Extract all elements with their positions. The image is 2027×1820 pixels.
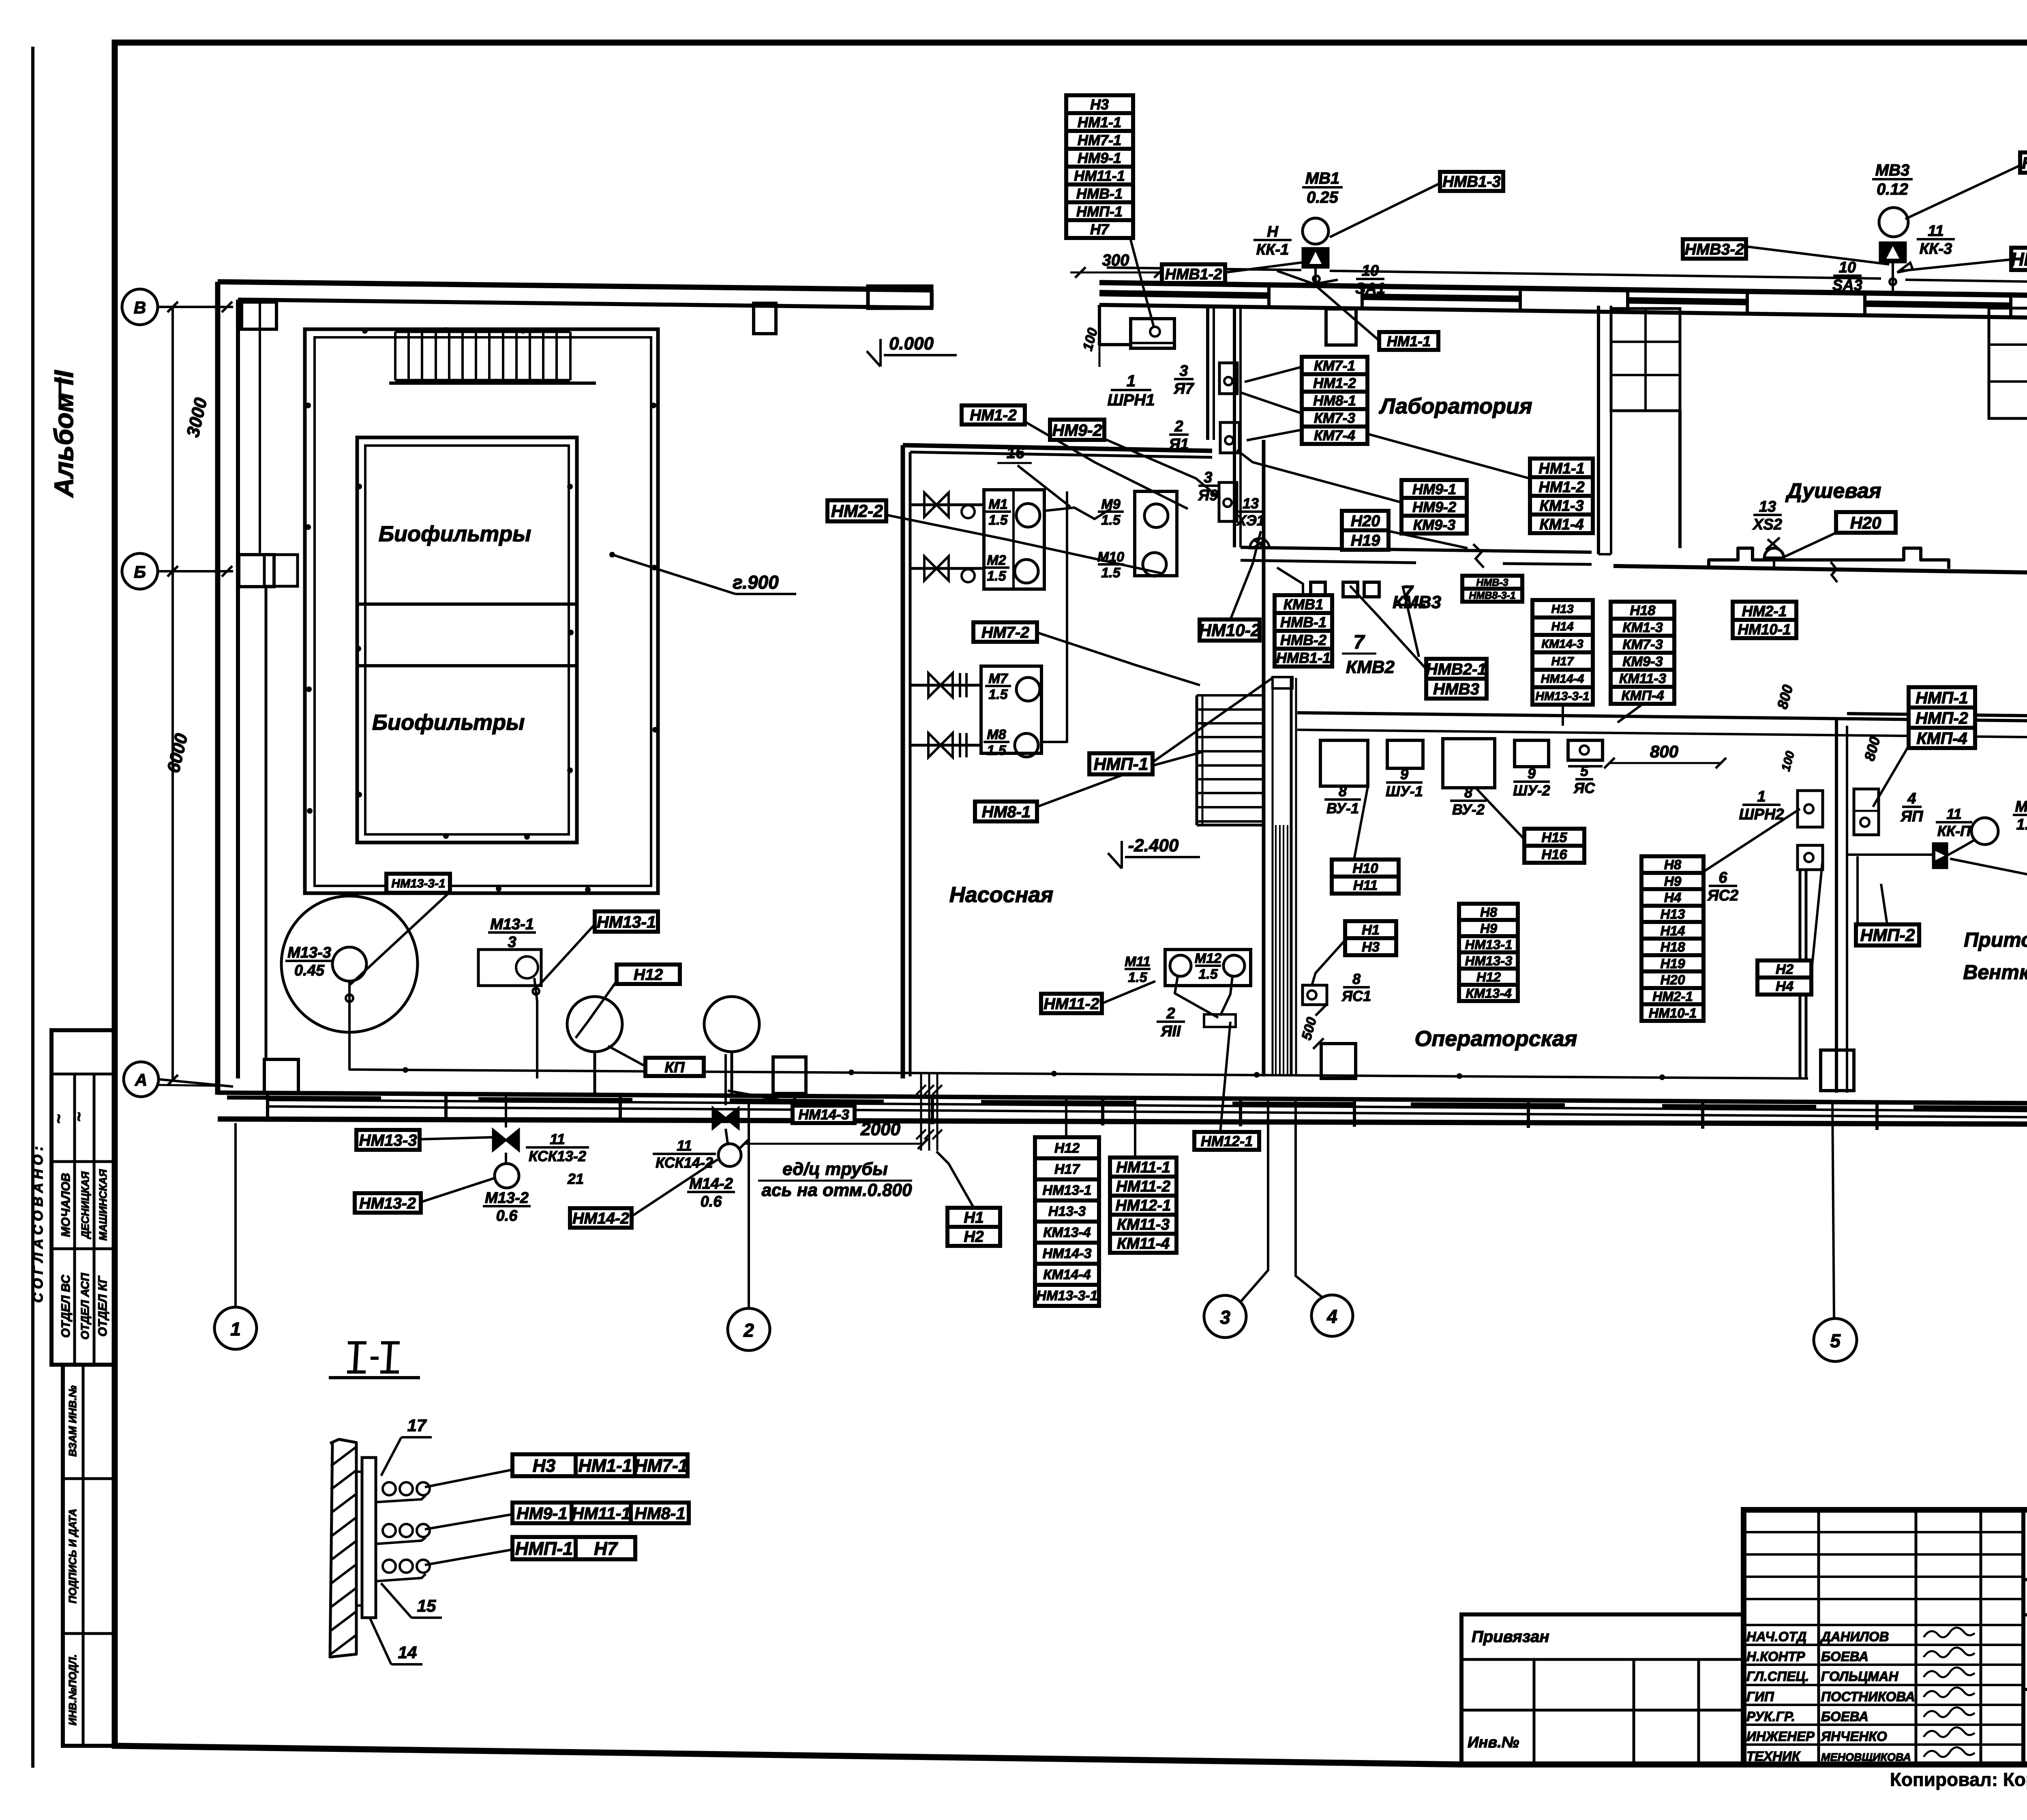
svg-text:ГИП: ГИП: [1746, 1689, 1774, 1704]
svg-text:6: 6: [1718, 869, 1727, 886]
svg-text:НМ9-2: НМ9-2: [1052, 421, 1102, 439]
svg-text:НМ9-1: НМ9-1: [1412, 481, 1456, 497]
svg-text:2000: 2000: [860, 1119, 900, 1139]
svg-text:ШРН2: ШРН2: [1739, 806, 1784, 823]
wire МВ3 down: [1892, 262, 1894, 293]
stack НМ2-1 НМ10-1: [1733, 602, 1796, 620]
device Я7: [1219, 363, 1237, 394]
stack КМ7-1 (5 rows): [1302, 357, 1367, 374]
svg-text:КМ9-3: КМ9-3: [1413, 517, 1455, 533]
left wall pilaster: [239, 555, 274, 587]
biofilter pool outer: [357, 437, 577, 842]
section row1 boxes: [512, 1454, 576, 1476]
column line 2: [748, 1100, 750, 1308]
nasosnaya top wall: [903, 445, 1212, 451]
bottom wall outer: [218, 1119, 2027, 1125]
box НМВ3-1: [2011, 248, 2027, 270]
stack НМП-1 vent (3 rows): [1909, 687, 1975, 707]
stack НМ11 bottom (5 rows): [1110, 1158, 1176, 1177]
box НМВ3-3: [2020, 152, 2027, 173]
svg-text:Н17: Н17: [1551, 655, 1574, 668]
biofilter tank inner wall line: [315, 337, 651, 886]
svg-text:ШУ-2: ШУ-2: [1513, 782, 1550, 799]
svg-text:3: 3: [1179, 362, 1188, 379]
pipe valves M2: [910, 567, 984, 570]
hall top wall outer: [218, 282, 932, 290]
pump block M11 M12: [1165, 950, 1251, 986]
pipe valves M8: [910, 744, 981, 747]
stack Н15 Н16: [1524, 829, 1584, 846]
svg-text:Копировал: Коршунова: Копировал: Коршунова: [1890, 1769, 2027, 1790]
bottom cable dots: [403, 1067, 408, 1073]
svg-text:МВ1: МВ1: [1305, 169, 1339, 187]
wire 16 leader: [1018, 465, 1070, 507]
svg-text:1.5: 1.5: [1101, 512, 1121, 528]
svg-text:Н12: Н12: [634, 966, 663, 984]
sheet edge line: [31, 47, 34, 1768]
svg-text:21: 21: [567, 1170, 584, 1187]
svg-text:ОТДЕЛ ВС: ОТДЕЛ ВС: [59, 1274, 73, 1338]
svg-text:НМ1-1: НМ1-1: [1078, 114, 1121, 131]
stack Н3 main (8 rows): [1066, 95, 1133, 113]
svg-text:НАЧ.ОТД: НАЧ.ОТД: [1746, 1629, 1806, 1644]
motor М13-3 big circle: [281, 896, 418, 1032]
leader Н2/Н4: [1811, 860, 1823, 973]
box НМ8-1: [975, 802, 1037, 821]
svg-text:16: 16: [1007, 444, 1025, 462]
svg-text:НМ13-3-1: НМ13-3-1: [1535, 690, 1589, 703]
svg-text:ГЛ.СПЕЦ.: ГЛ.СПЕЦ.: [1746, 1669, 1809, 1684]
svg-text:9: 9: [1528, 765, 1536, 782]
svg-text:НМВ2-1: НМВ2-1: [1426, 660, 1487, 678]
svg-text:0.000: 0.000: [889, 334, 934, 354]
wire stack НМ11 up: [1134, 1100, 1136, 1158]
svg-text:ИНВ.№ПОДЛ.: ИНВ.№ПОДЛ.: [66, 1654, 79, 1726]
svg-text:Н13: Н13: [1660, 907, 1685, 922]
svg-text:НМ13-3: НМ13-3: [1465, 953, 1513, 968]
stack Н10 Н11: [1332, 860, 1399, 877]
svg-text:НМ7-1: НМ7-1: [634, 1456, 688, 1476]
svg-text:0.6: 0.6: [701, 1193, 722, 1210]
leader НМ1-2 wire: [1025, 422, 1188, 509]
hall wall end pier: [868, 286, 932, 308]
section wire row2: [425, 1514, 512, 1529]
leader НМП-2 box: [1881, 884, 1887, 924]
svg-text:Н3: Н3: [1090, 96, 1109, 113]
svg-text:ед/ц трубы: ед/ц трубы: [782, 1159, 888, 1179]
box НМ10-2: [1200, 620, 1260, 641]
leader НМВ3-3 to МВ3: [1905, 165, 2020, 219]
leader Н13 stack down: [1562, 705, 1564, 726]
svg-text:М13-3: М13-3: [287, 944, 331, 961]
main top wall outer: [1099, 283, 2027, 300]
svg-text:НМ10-1: НМ10-1: [1649, 1006, 1697, 1021]
svg-text:Я7: Я7: [1174, 380, 1195, 397]
wire КК-П to МП: [1947, 840, 1974, 855]
leader НМ13-2 to motor: [421, 1178, 495, 1202]
leader НМП stack to ЯП: [1873, 746, 1909, 807]
svg-text:ВУ-1: ВУ-1: [1326, 800, 1359, 817]
tank Н12 circle 2: [704, 997, 759, 1052]
contactor КК-П: [1933, 843, 1947, 868]
svg-text:Привязан: Привязан: [1472, 1628, 1549, 1646]
svg-text:Н20: Н20: [1351, 512, 1380, 530]
stack Н12 bottom (8 rows): [1035, 1137, 1099, 1158]
leader Н15/Н16: [1476, 788, 1524, 839]
svg-text:НМП-1: НМП-1: [1916, 688, 1968, 707]
stack КМВ1 (4 rows): [1275, 595, 1332, 613]
svg-text:НМ12-1: НМ12-1: [1115, 1197, 1171, 1214]
svg-text:Н12: Н12: [1054, 1140, 1080, 1156]
box НМ1-1 lab: [1379, 332, 1438, 350]
device ЯС1: [1303, 985, 1327, 1005]
svg-text:НМ1-1: НМ1-1: [1538, 460, 1584, 477]
sidebar lower table (inventory): [63, 1365, 115, 1746]
svg-text:ЯП: ЯП: [1900, 808, 1923, 825]
motor М14-2: [718, 1144, 741, 1166]
left wall inner: [236, 300, 240, 1078]
devices ШРН2 risers: [1798, 791, 1823, 827]
svg-text:КК-3: КК-3: [1920, 240, 1952, 257]
wire Н1Н2 up: [936, 1151, 974, 1208]
operator room top wall: [1297, 713, 2027, 722]
svg-text:НМ13-3: НМ13-3: [359, 1131, 417, 1149]
svg-text:1.5: 1.5: [1101, 565, 1121, 581]
svg-text:Н18: Н18: [1660, 940, 1685, 955]
svg-text:НМ13-1: НМ13-1: [1043, 1183, 1092, 1198]
svg-text:ЯНЧЕНКО: ЯНЧЕНКО: [1821, 1729, 1887, 1744]
svg-text:НМВ-1: НМВ-1: [1076, 185, 1123, 202]
svg-text:2: 2: [1166, 1005, 1175, 1022]
left wall cable box: [264, 555, 298, 586]
left wall cable: [259, 302, 261, 555]
svg-text:НМ7-2: НМ7-2: [981, 624, 1029, 641]
svg-text:НМ11-2: НМ11-2: [1116, 1178, 1171, 1195]
svg-text:ДАНИЛОВ: ДАНИЛОВ: [1820, 1629, 1889, 1644]
svg-text:Н8: Н8: [1664, 857, 1682, 872]
risers symbol bottom: [920, 1074, 922, 1151]
column line 3: [1241, 1100, 1268, 1302]
bottom wall inner lines: [268, 1100, 2027, 1113]
svg-text:SA3: SA3: [1832, 277, 1862, 294]
svg-text:КМ1-4: КМ1-4: [1539, 516, 1583, 533]
leader НМВ3-2: [1746, 247, 1889, 264]
pipe valves M1: [910, 504, 984, 506]
svg-text:Н14: Н14: [1660, 924, 1685, 939]
leader НМ7-2 wire: [1037, 632, 1200, 685]
stack Н2 Н4: [1757, 960, 1811, 978]
svg-text:8: 8: [1339, 783, 1347, 800]
svg-text:ЯII: ЯII: [1161, 1023, 1181, 1040]
svg-text:НМП-2: НМП-2: [1860, 926, 1915, 945]
svg-text:Н19: Н19: [1351, 532, 1380, 549]
box ШУ-1: [1387, 740, 1423, 768]
svg-text:3: 3: [508, 934, 516, 951]
section cable group 3: [383, 1560, 396, 1573]
svg-text:НМВ-2: НМВ-2: [1280, 632, 1326, 648]
svg-text:НМП-1: НМП-1: [1094, 755, 1148, 774]
svg-text:1.5: 1.5: [987, 568, 1006, 584]
svg-text:КМП-4: КМП-4: [1916, 729, 1967, 748]
biofilter grate comb: [395, 330, 570, 333]
box НМ7-2: [973, 622, 1037, 642]
sidebar upper table (approvals): [51, 1030, 115, 1365]
wire М13-1 down: [534, 978, 537, 1078]
wire M1 to riser: [1044, 508, 1111, 519]
svg-text:1.5: 1.5: [988, 687, 1008, 702]
svg-text:КМ14-3: КМ14-3: [1541, 637, 1583, 651]
svg-text:Н4: Н4: [1664, 890, 1682, 905]
svg-text:11: 11: [1946, 806, 1961, 822]
leader Н1/Н3 to ЯС1: [1312, 941, 1345, 985]
stair treads: [1196, 695, 1198, 825]
wires M11 M12: [1175, 976, 1218, 1018]
svg-text:НМ14-4: НМ14-4: [1541, 672, 1584, 686]
svg-text:НМВ1-2: НМВ1-2: [1165, 266, 1222, 283]
svg-text:НМВ8-3-1: НМВ8-3-1: [1469, 590, 1515, 601]
svg-text:БОЕВА: БОЕВА: [1821, 1709, 1868, 1724]
svg-text:5: 5: [1580, 763, 1589, 779]
svg-text:НМВ3-3: НМВ3-3: [2022, 154, 2027, 172]
svg-text:КМ7-3: КМ7-3: [1622, 637, 1663, 652]
axis circle В: [122, 289, 158, 325]
title block main outline: [1744, 1510, 2027, 1764]
svg-text:1.5: 1.5: [988, 512, 1008, 528]
svg-text:1.5: 1.5: [1128, 970, 1147, 985]
svg-text:КМ13-4: КМ13-4: [1466, 986, 1511, 1001]
title left box Привязан: [1461, 1614, 1744, 1764]
axis line А: [159, 1079, 233, 1087]
svg-text:Душевая: Душевая: [1785, 479, 1881, 503]
bottom-left wall pier: [264, 1059, 298, 1093]
svg-text:ВУ-2: ВУ-2: [1452, 801, 1485, 818]
leader Н8 stack to riser: [1703, 809, 1800, 872]
wire top cable main: [1107, 268, 1301, 270]
leader НМ14-2 to motor: [632, 1160, 718, 1216]
svg-text:НМВ-3: НМВ-3: [1476, 577, 1508, 588]
contactor КК-1: [1303, 248, 1328, 268]
svg-text:МЕНОВЩИКОВА: МЕНОВЩИКОВА: [1821, 1751, 1911, 1763]
box НМ1-2: [962, 405, 1025, 424]
stack НМ9-1 (3 rows): [1401, 480, 1467, 498]
svg-text:НМ9-2: НМ9-2: [1412, 499, 1456, 515]
svg-text:НМ11-1: НМ11-1: [1074, 167, 1125, 184]
svg-text:ШРН1: ШРН1: [1108, 391, 1155, 409]
nasosnaya left wall: [901, 445, 905, 1078]
svg-text:НМ10-1: НМ10-1: [1738, 621, 1791, 638]
svg-text:1: 1: [1127, 372, 1136, 390]
box ШУ-2: [1515, 740, 1549, 767]
svg-text:КК-П: КК-П: [1937, 823, 1971, 839]
svg-text:НМ2-1: НМ2-1: [1652, 989, 1693, 1004]
svg-text:Н3: Н3: [1362, 939, 1380, 955]
leader Н20/Н19 wire: [1389, 531, 1468, 548]
leader НМВ2-1/НМВ3 box: [1350, 586, 1426, 669]
svg-text:НМ8-1: НМ8-1: [1313, 393, 1356, 409]
svg-text:ГОЛЬЦМАН: ГОЛЬЦМАН: [1821, 1669, 1898, 1684]
svg-text:13: 13: [1759, 498, 1776, 515]
svg-text:НМ10-2: НМ10-2: [1199, 621, 1260, 640]
valve КСК14-2: [713, 1108, 739, 1129]
svg-text:ЯС: ЯС: [1573, 780, 1595, 796]
svg-text:НМ11-1: НМ11-1: [1116, 1159, 1170, 1176]
svg-text:8: 8: [1464, 784, 1472, 801]
wire НМП-2 riser: [1856, 856, 1859, 924]
wall break symbol lab: [1473, 544, 1484, 568]
svg-text:НМ9-1: НМ9-1: [1078, 150, 1121, 166]
svg-text:Альбом II: Альбом II: [49, 370, 79, 498]
leader stack4 lab: [1241, 392, 1530, 478]
stack НМ1-1 lab right (4 rows): [1530, 459, 1593, 477]
leader КМ7 stack wires: [1245, 367, 1302, 382]
svg-text:Н7: Н7: [1090, 221, 1110, 238]
svg-text:-2.400: -2.400: [1128, 836, 1179, 855]
lab bottom wall: [1241, 547, 1592, 552]
box НМП-1 mid: [1089, 753, 1153, 774]
column line 4: [1296, 1100, 1322, 1297]
svg-text:КМ11-3: КМ11-3: [1619, 671, 1666, 686]
svg-text:НМВ3-2: НМВ3-2: [1685, 240, 1744, 258]
stack Н18 (6 rows): [1611, 602, 1674, 619]
svg-text:Н9: Н9: [1664, 874, 1682, 889]
left wall outer: [215, 282, 221, 1095]
column circle 1: [214, 1307, 257, 1349]
pump block M7 M8: [981, 666, 1041, 753]
black device boxes 7 КМВ: [1311, 582, 1325, 597]
column line 5: [1832, 1101, 1834, 1318]
svg-text:А: А: [135, 1070, 147, 1089]
leader НМВ1-3 to МВ1: [1330, 183, 1440, 237]
svg-text:НМ14-3: НМ14-3: [1043, 1246, 1092, 1261]
stack Н1 Н3: [1345, 921, 1396, 938]
wall below lab cabinet: [1678, 411, 1682, 548]
column circle 2: [728, 1308, 770, 1351]
svg-text:КМП-4: КМП-4: [1621, 688, 1664, 703]
svg-text:1: 1: [1757, 788, 1766, 805]
tank Н12 circle 1: [567, 997, 622, 1052]
svg-text:КМ11-4: КМ11-4: [1117, 1235, 1170, 1252]
svg-text:ПОДПИСЬ И ДАТА: ПОДПИСЬ И ДАТА: [66, 1509, 79, 1603]
svg-text:ЯС2: ЯС2: [1707, 887, 1738, 904]
svg-text:Н7: Н7: [594, 1538, 618, 1559]
leader НМ9-2 wire: [1104, 439, 1220, 499]
biofilter tank outer wall: [305, 329, 658, 893]
box НМ2-2: [827, 500, 886, 521]
motor МВ1: [1303, 218, 1328, 244]
box below M11: [1204, 1014, 1236, 1027]
leader НМ10-2 wire: [1230, 531, 1261, 620]
svg-text:НМ14-2: НМ14-2: [572, 1209, 629, 1227]
left wall cable lower: [265, 587, 268, 1059]
svg-text:НМП-2: НМП-2: [1916, 709, 1968, 727]
axis A dash line: [159, 1085, 219, 1086]
leader НМП-3: [1950, 859, 2027, 888]
svg-text:НМП-1: НМП-1: [515, 1538, 573, 1559]
wall pilaster top-left: [242, 302, 276, 329]
symbol XS2: [1764, 548, 1784, 558]
svg-text:Я1: Я1: [1169, 436, 1189, 453]
svg-text:КМВ1: КМВ1: [1283, 596, 1323, 613]
leader НМ14-3 box wire: [728, 1091, 811, 1106]
valve КСК13-2: [493, 1130, 519, 1151]
leader Н20 shower: [1784, 533, 1836, 557]
svg-text:Н12: Н12: [1476, 969, 1501, 984]
svg-text:ОТДЕЛ АСП: ОТДЕЛ АСП: [79, 1273, 91, 1340]
motor МП: [1971, 818, 1998, 845]
lab top wall window: [1326, 309, 1356, 345]
svg-text:В: В: [134, 298, 146, 317]
top wall window piers: [1267, 285, 1271, 307]
stack Н8 center (6 rows): [1459, 904, 1518, 920]
column line 1: [234, 1123, 237, 1307]
svg-text:НМВ1-3: НМВ1-3: [1442, 173, 1500, 191]
svg-text:4: 4: [1326, 1306, 1337, 1327]
leader НМ11-2 wire: [1102, 981, 1155, 1003]
box НМ13-3-1: [386, 874, 450, 893]
Н12 circle stems: [594, 1052, 596, 1095]
lab cabinet grid: [1611, 309, 1680, 411]
svg-text:КМ13-4: КМ13-4: [1043, 1225, 1091, 1240]
svg-text:2: 2: [1174, 418, 1183, 435]
svg-text:7: 7: [1354, 632, 1365, 653]
stack НМВ-3: [1462, 576, 1522, 589]
svg-text:НМ8-1: НМ8-1: [982, 803, 1031, 821]
svg-text:ТЕХНИК: ТЕХНИК: [1746, 1749, 1801, 1764]
leader from stack to shrn: [1130, 238, 1154, 327]
svg-text:Н1: Н1: [1362, 922, 1380, 938]
motor М13-2: [495, 1164, 519, 1188]
svg-text:Венткамера: Венткамера: [1963, 961, 2027, 984]
svg-text:Н.КОНТР: Н.КОНТР: [1746, 1649, 1806, 1664]
leader НМВ1-2: [1225, 262, 1309, 272]
svg-text:НМ1-2: НМ1-2: [1313, 375, 1356, 391]
leader НМВ3-1: [1901, 259, 2011, 271]
section row3 boxes: [512, 1537, 576, 1559]
bottom wall ticks: [266, 1093, 269, 1121]
svg-text:КМ14-4: КМ14-4: [1043, 1267, 1091, 1282]
svg-text:МП: МП: [2015, 798, 2027, 815]
column circle 5: [1814, 1318, 1857, 1361]
svg-text:1.1: 1.1: [2016, 816, 2027, 833]
biofilter pool inner: [365, 446, 569, 834]
svg-text:М14-2: М14-2: [689, 1175, 733, 1192]
leader г.900: [612, 555, 735, 594]
svg-text:14: 14: [398, 1643, 417, 1662]
box НМ13-1: [595, 911, 658, 932]
svg-text:13: 13: [1243, 495, 1259, 512]
stack Н20 Н19: [1342, 511, 1388, 530]
svg-text:НМ2-2: НМ2-2: [831, 502, 883, 521]
bottom wall band segments: [227, 1098, 381, 1098]
svg-text:КК-1: КК-1: [1256, 241, 1289, 258]
svg-text:М11: М11: [1125, 954, 1151, 969]
svg-text:Н13: Н13: [1551, 602, 1573, 616]
svg-text:XS2: XS2: [1752, 516, 1782, 533]
lab east wall: [1597, 306, 1600, 554]
svg-text:ПОСТНИКОВА: ПОСТНИКОВА: [1821, 1689, 1915, 1704]
svg-text:С О Г Л А С О В А Н О :: С О Г Л А С О В А Н О :: [30, 1146, 46, 1303]
axis dimension line: [171, 307, 174, 1082]
svg-text:SA1: SA1: [1355, 280, 1385, 297]
leader НМ13-1 wire: [539, 924, 595, 985]
box ВУ-2: [1443, 739, 1495, 788]
bottom wall pier right of biofilters: [773, 1057, 806, 1093]
shrn nook wall: [1099, 305, 1131, 345]
pipe valves M7: [910, 684, 981, 687]
main top wall mid band: [1099, 293, 1269, 296]
box КП: [645, 1058, 704, 1076]
svg-text:НМ9-1: НМ9-1: [516, 1504, 567, 1523]
